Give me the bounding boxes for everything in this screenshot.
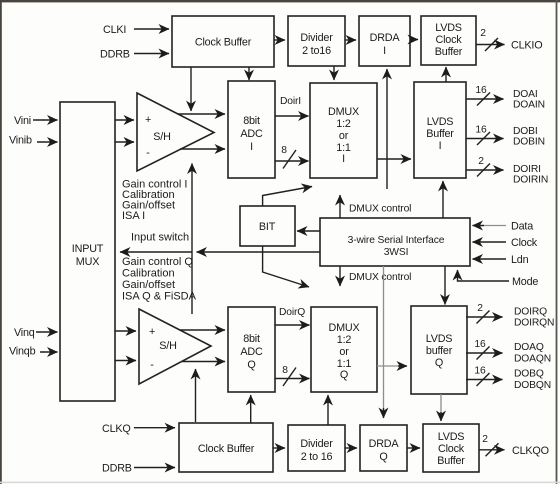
svg-text:DOIRI: DOIRI (513, 164, 541, 175)
svg-text:ADC: ADC (240, 346, 263, 358)
wire LVDS Buffer I out DOBI (466, 138, 504, 140)
wire S/H I output lower to ADC I (180, 148, 225, 150)
wire S/H I output upper to ADC I (178, 113, 225, 115)
svg-text:Clock Buffer: Clock Buffer (198, 443, 255, 455)
svg-text:Buffer: Buffer (435, 46, 463, 58)
svg-text:-: - (146, 147, 150, 159)
svg-text:8: 8 (281, 145, 287, 156)
svg-text:8bit: 8bit (243, 333, 260, 345)
svg-text:Vinq: Vinq (14, 327, 35, 339)
svg-text:DMUX: DMUX (329, 322, 360, 334)
svg-text:MUX: MUX (76, 256, 99, 268)
wire DDRB to Clock Buffer Q (134, 467, 175, 469)
wire DRDA Q to LVDS Clock Buffer Q (407, 447, 420, 449)
wire 3WSI input switch to junction (197, 251, 321, 253)
wire INPUT MUX to S/H Q plus (115, 330, 136, 332)
svg-text:16: 16 (475, 85, 487, 96)
svg-text:-: - (150, 359, 154, 371)
wire Clock Buffer I to Divider I (274, 39, 285, 41)
svg-text:I: I (383, 45, 386, 57)
svg-text:16: 16 (474, 366, 486, 377)
svg-text:Gain control Q: Gain control Q (122, 256, 193, 268)
wire BIT diagonal down to DMUX Q (263, 246, 309, 287)
frame right (556, 0, 558, 484)
svg-text:DOAI: DOAI (513, 89, 538, 100)
svg-text:DOBQN: DOBQN (514, 380, 551, 391)
svg-text:2: 2 (480, 28, 486, 39)
svg-text:CLKQO: CLKQO (512, 445, 549, 457)
wire Clock Buffer Q to Divider Q (273, 447, 285, 449)
svg-text:LVDS: LVDS (426, 333, 453, 345)
block LVDS Buffer I (414, 82, 466, 178)
svg-text:DOAQ: DOAQ (514, 342, 544, 353)
svg-text:Q: Q (435, 357, 443, 369)
wire INPUT MUX to S/H I minus (115, 141, 134, 143)
svg-text:16: 16 (475, 125, 487, 136)
wire input switch vertical down (191, 252, 193, 314)
block Clock Buffer I (U-clkbuf-I) (172, 16, 274, 67)
svg-text:DOBI: DOBI (513, 126, 538, 137)
frame bottom (0, 482, 560, 484)
frame top (0, 0, 560, 2)
wire 3WSI down to LVDS buffer Q (444, 266, 446, 305)
wire Mode to 3WSI (458, 270, 510, 281)
svg-text:DOIRQ: DOIRQ (514, 307, 547, 318)
wire 3WSI control up to DRDA I (386, 69, 388, 189)
svg-text:2 to 16: 2 to 16 (301, 451, 333, 463)
wire Divider Q to DRDA Q (345, 447, 357, 449)
svg-text:2: 2 (477, 303, 483, 314)
block Divider 2 to16 I (288, 16, 345, 66)
svg-text:or: or (339, 130, 349, 142)
block INPUT MUX (60, 102, 115, 401)
wire LVDS buffer Q down to LVDS Clock Buffer Q (gray) (440, 394, 442, 414)
wire DMUX Q to LVDS buffer Q (gray) (377, 365, 400, 367)
svg-text:8bit: 8bit (243, 115, 260, 127)
wire LVDS Clock Buffer I output CLKIO (476, 44, 505, 46)
svg-text:LVDS: LVDS (438, 431, 465, 443)
svg-text:INPUT: INPUT (72, 243, 104, 255)
svg-text:Divider: Divider (300, 438, 333, 450)
wire 3WSI to BIT (297, 230, 320, 232)
block BIT (240, 206, 295, 246)
block LVDS Clock Buffer Q (423, 424, 479, 472)
svg-text:+: + (145, 114, 151, 126)
svg-text:Clock Buffer: Clock Buffer (195, 37, 252, 49)
wire INPUT MUX to S/H I plus (115, 119, 134, 121)
block Divider 2 to 16 Q (288, 425, 345, 471)
svg-text:buffer: buffer (426, 345, 453, 357)
wire 3WSI up to LVDS Buffer I (442, 181, 444, 218)
wire Clock Buffer I to ADC I clock (248, 67, 250, 80)
block LVDS Clock Buffer I (421, 16, 476, 65)
block DRDA I (359, 16, 410, 66)
svg-text:DMUX: DMUX (328, 106, 359, 118)
op-amp S/H Q (139, 309, 211, 384)
svg-text:LVDS: LVDS (435, 22, 462, 34)
svg-text:DRDA: DRDA (370, 32, 401, 44)
bus slash DOIRI (477, 164, 490, 177)
wire DRDA I to LVDS Clock Buffer I (410, 39, 418, 41)
wire LVDS buffer Q out DOIRQ (466, 316, 503, 318)
svg-text:Vinqb: Vinqb (9, 346, 36, 358)
bus slash DOBI (477, 132, 490, 145)
wire LVDS Buffer I out DOIRI (466, 169, 504, 171)
wire LVDS buffer Q out DOBQ (466, 379, 503, 381)
frame left (0, 0, 2, 484)
svg-text:3WSI: 3WSI (384, 247, 409, 258)
wire LVDS Buffer I out DOAI (466, 98, 504, 100)
bus slash DOAQ (477, 347, 490, 360)
svg-text:DOAQN: DOAQN (514, 354, 551, 365)
wire CLKQ to Clock Buffer Q (134, 427, 175, 429)
bus slash DOBQ (477, 373, 490, 386)
wire CLKI to Clock Buffer I (134, 28, 169, 30)
wire INPUT MUX to S/H Q minus (115, 360, 136, 362)
block DMUX I (310, 83, 377, 178)
svg-text:BIT: BIT (259, 221, 276, 233)
svg-text:1:2: 1:2 (336, 118, 351, 130)
svg-text:CLKIO: CLKIO (511, 40, 542, 52)
bus slash 8 I (283, 150, 296, 169)
wire Vinq to INPUT MUX (36, 331, 58, 333)
wire S/H Q output lower to ADC Q (182, 361, 225, 363)
svg-text:+: + (149, 326, 155, 338)
block LVDS buffer Q (411, 306, 467, 394)
svg-text:DOIRIN: DOIRIN (513, 175, 548, 186)
wire ADC Q DoirQ out to DMUX Q (275, 324, 310, 326)
svg-text:Mode: Mode (512, 276, 538, 288)
svg-text:2: 2 (482, 434, 488, 445)
wire Divider I to DRDA I (345, 39, 356, 41)
block DMUX Q (311, 307, 377, 392)
wire Vinqb to INPUT MUX (40, 351, 58, 353)
svg-text:S/H: S/H (159, 340, 176, 352)
svg-text:Vinib: Vinib (9, 135, 32, 147)
wire 3WSI down to DRDA Q (gray) (383, 266, 385, 410)
op-amp S/H I (137, 93, 214, 171)
svg-text:16: 16 (474, 339, 486, 350)
wire Vini to INPUT MUX (33, 119, 58, 121)
svg-text:Buffer: Buffer (437, 455, 465, 467)
wire Ldn to 3WSI (473, 258, 507, 260)
bus slash 8 Q (283, 368, 296, 387)
bus slash CLKIO (485, 38, 498, 51)
svg-text:ADC: ADC (240, 128, 263, 140)
wire Clock to 3WSI (473, 241, 507, 243)
svg-text:CLKI: CLKI (103, 24, 126, 36)
bus slash CLKQO (486, 443, 499, 456)
svg-text:DDRB: DDRB (100, 49, 130, 61)
svg-text:1:2: 1:2 (337, 334, 352, 346)
wire DDRB to Clock Buffer I (134, 53, 169, 55)
bus slash DOIRQ (477, 311, 490, 324)
svg-text:2: 2 (478, 156, 484, 167)
wire DMUX control up arrow (339, 195, 341, 218)
svg-text:ISA Q & FiSDA: ISA Q & FiSDA (122, 291, 197, 303)
svg-text:DRDA: DRDA (369, 438, 400, 450)
svg-text:Q: Q (379, 451, 387, 463)
block DRDA Q (360, 425, 407, 471)
wire ADC Q 8bit bus to DMUX Q (275, 378, 310, 380)
wire ADC I 8bit bus to DMUX I (275, 160, 309, 162)
svg-text:DOIRQN: DOIRQN (514, 318, 554, 329)
wire ADC I DoirI out to DMUX I (275, 115, 309, 117)
wire junction to INPUT MUX (120, 251, 192, 253)
svg-text:DOBIN: DOBIN (513, 137, 545, 148)
svg-text:DMUX control: DMUX control (349, 272, 411, 283)
bus slash DOAI (477, 93, 490, 106)
svg-text:Divider: Divider (300, 32, 333, 44)
svg-text:I: I (250, 141, 253, 153)
wire Divider Q up to DMUX Q (327, 395, 329, 425)
svg-text:DoirQ: DoirQ (279, 307, 305, 318)
svg-text:3-wire Serial Interface: 3-wire Serial Interface (348, 235, 445, 246)
svg-text:CLKQ: CLKQ (102, 423, 131, 435)
wire Clock Buffer Q up to S/H Q (195, 369, 197, 422)
wire DMUX control down arrow (339, 266, 341, 286)
svg-text:I: I (342, 153, 345, 165)
svg-text:Clock: Clock (438, 443, 465, 455)
wire S/H Q output upper to ADC Q (180, 329, 225, 331)
svg-text:DOBQ: DOBQ (514, 369, 544, 380)
svg-text:Data: Data (511, 221, 533, 233)
wire Divider I down to DMUX I (333, 66, 335, 80)
svg-text:Calibration: Calibration (122, 268, 175, 280)
svg-text:S/H: S/H (153, 131, 170, 143)
svg-text:LVDS: LVDS (427, 116, 454, 128)
wire LVDS Clock Buffer Q output CLKQO (479, 449, 505, 451)
wire DMUX I to LVDS Buffer I (377, 158, 411, 160)
svg-text:DOAIN: DOAIN (513, 100, 545, 111)
wire LVDS buffer Q out DOAQ (466, 352, 503, 354)
block Clock Buffer Q (179, 423, 273, 472)
svg-text:8: 8 (282, 365, 288, 376)
svg-text:DDRB: DDRB (102, 463, 132, 475)
svg-text:I: I (439, 140, 442, 152)
wire Clock Buffer Q up to ADC Q (250, 395, 252, 423)
wire input switch stub up arrow at S/H I (191, 164, 193, 253)
wire LVDS Buffer I up to LVDS Clock Buffer I (445, 67, 447, 82)
svg-text:2 to16: 2 to16 (302, 45, 331, 57)
svg-text:DoirI: DoirI (280, 96, 301, 107)
svg-text:Clock: Clock (436, 34, 463, 46)
wire BIT diagonal up to DMUX I (263, 187, 312, 207)
svg-text:Input switch: Input switch (131, 232, 189, 244)
wire Data to 3WSI (480, 225, 506, 227)
svg-text:DMUX control: DMUX control (349, 204, 411, 215)
svg-text:or: or (339, 346, 349, 358)
svg-text:Ldn: Ldn (511, 254, 529, 266)
svg-text:Gain/offset: Gain/offset (122, 279, 175, 291)
block 3-wire Serial Interface 3WSI (320, 218, 470, 266)
wire Clock Buffer I to S/H I clock (190, 67, 192, 111)
svg-text:Clock: Clock (511, 237, 538, 249)
svg-text:Buffer: Buffer (426, 128, 454, 140)
block 8bit ADC Q (228, 307, 275, 392)
svg-text:ISA I: ISA I (122, 210, 145, 222)
svg-text:Q: Q (340, 369, 348, 381)
svg-text:Vini: Vini (14, 115, 31, 127)
svg-text:Q: Q (247, 359, 255, 371)
block 8bit ADC I (228, 81, 275, 178)
wire Vinib to INPUT MUX (37, 141, 58, 143)
